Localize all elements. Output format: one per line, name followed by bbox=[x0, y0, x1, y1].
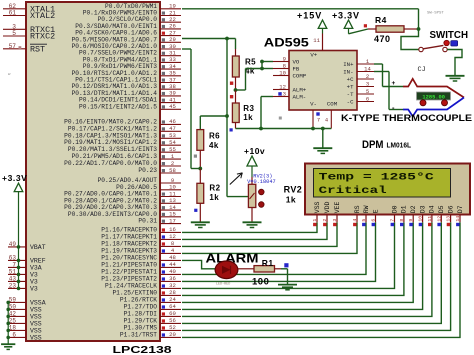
svg-text:+15V: +15V bbox=[297, 11, 322, 21]
svg-text:5: 5 bbox=[361, 219, 367, 222]
pin P0.28/AD0.1/CAP0.2/MAT0.2 (pin 13) right stub bbox=[64, 197, 181, 204]
node R6/R2 junction bbox=[198, 167, 202, 171]
label RV2(3) voltage bbox=[247, 173, 276, 185]
AD595 pin COMP (10) bbox=[273, 69, 307, 79]
wire LCD pin x=327 to MCU row y=239.4 bbox=[182, 222, 327, 239]
svg-text:63: 63 bbox=[9, 254, 17, 261]
wire LCD pin x=422.6 to MCU row y=309.4 bbox=[182, 222, 423, 309]
pin P0.13/DTR1/MAT1.1/AD1.4 (pin 39) right stub bbox=[72, 90, 181, 97]
svg-text:45: 45 bbox=[169, 103, 176, 110]
AD595 pins V-/COM (7,4) to ground bbox=[313, 110, 331, 129]
svg-text:R1: R1 bbox=[262, 258, 274, 268]
wire LCD pin x=394.5 to MCU row y=288.4 bbox=[182, 222, 395, 288]
svg-text:P1.19/TRACEPKT3: P1.19/TRACEPKT3 bbox=[101, 247, 157, 254]
wire LCD pin x=337 to MCU row y=246.4 bbox=[182, 222, 337, 246]
AD595 pin -T (5) bbox=[347, 88, 374, 98]
svg-text:P1.20/TRACESYNC: P1.20/TRACESYNC bbox=[101, 254, 157, 261]
wire LCD pin x=403.9 to MCU row y=295.4 bbox=[182, 222, 404, 295]
LCD pin D2 (9) bbox=[408, 205, 417, 226]
svg-text:D0: D0 bbox=[391, 205, 398, 213]
wire FB to R5/R3 junction bbox=[236, 69, 263, 91]
wire LCD pin x=366 to MCU row y=274.4 bbox=[182, 222, 366, 274]
pin VSS (pin 25) left stub bbox=[8, 317, 42, 327]
pin P0.17/CAP1.2/SCK1/MAT1.2 (pin 47) right stub bbox=[68, 125, 181, 132]
svg-text:7: 7 bbox=[12, 261, 16, 268]
svg-text:54: 54 bbox=[169, 139, 176, 146]
svg-text:60: 60 bbox=[169, 310, 176, 317]
svg-text:+3.3V: +3.3V bbox=[2, 173, 27, 183]
svg-text:4k: 4k bbox=[209, 141, 219, 150]
svg-text:P0.22/AD1.7/CAP0.0/MAT0.0: P0.22/AD1.7/CAP0.0/MAT0.0 bbox=[64, 160, 157, 167]
pin P0.14/DCD1/EINT1/SDA1 (pin 41) right stub bbox=[79, 96, 181, 103]
pin P0.16/EINT0/MAT0.2/CAP0.2 (pin 46) right stub bbox=[64, 118, 181, 125]
pin P1.31/TRST (pin 20) right stub bbox=[120, 331, 181, 338]
wire LCD pin x=357 to MCU row y=253.4 bbox=[182, 222, 357, 253]
pin P0.21/PWM5/AD1.6/CAP1.3 (pin 1) right stub bbox=[72, 153, 181, 160]
svg-text:CJ: CJ bbox=[418, 66, 426, 74]
pin P0.12/DSR1/MAT1.0/AD1.3 (pin 38) right stub bbox=[72, 83, 181, 90]
blue square near R1 ground bbox=[284, 263, 288, 267]
svg-text:AD595: AD595 bbox=[264, 38, 310, 50]
AD595 pin V+ (11) bbox=[313, 34, 322, 51]
svg-text:ALM-: ALM- bbox=[293, 94, 307, 101]
op-amp U2 AD595 body bbox=[289, 51, 357, 111]
svg-text:20: 20 bbox=[169, 331, 176, 338]
node R5/R3 junction bbox=[234, 88, 238, 92]
svg-text:40: 40 bbox=[169, 268, 176, 275]
ground under R1 bbox=[278, 285, 297, 290]
pin P0.20/MAT1.3/SSEL1/EINT3 (pin 55) right stub bbox=[68, 146, 181, 153]
svg-text:13: 13 bbox=[446, 216, 452, 222]
svg-text:+: + bbox=[392, 80, 396, 87]
svg-text:V3: V3 bbox=[30, 272, 38, 279]
svg-text:XTAL2: XTAL2 bbox=[30, 11, 55, 21]
pin P1.28/TDI (pin 60) right stub bbox=[124, 310, 181, 317]
LCD pin D0 (7) bbox=[390, 205, 399, 226]
pin P0.22/AD1.7/CAP0.0/MAT0.0 (pin 2) right stub bbox=[64, 160, 181, 167]
AD595 pin ALM- (13) bbox=[273, 90, 306, 100]
svg-text:D5: D5 bbox=[438, 205, 445, 213]
svg-text:LPC2138: LPC2138 bbox=[113, 345, 173, 355]
pin VSSA (pin 59) left stub bbox=[8, 296, 46, 306]
svg-text:8: 8 bbox=[283, 62, 286, 69]
pin V3 (pin 51) left stub bbox=[8, 268, 38, 278]
svg-text:SW-SPST: SW-SPST bbox=[427, 11, 444, 15]
LCD LM016L body bbox=[305, 164, 470, 215]
svg-text:IN+: IN+ bbox=[343, 61, 354, 68]
pin RTXC1 (pin 3) left stub bbox=[3, 23, 55, 35]
svg-text:V-: V- bbox=[310, 101, 317, 108]
pin P0.4/SCK0/CAP0.1/AD0.6 (pin 27) right stub bbox=[75, 29, 181, 36]
pin VBAT (pin 49) left stub bbox=[8, 241, 46, 251]
svg-text:P1.24/TRACECLK: P1.24/TRACECLK bbox=[105, 282, 157, 289]
svg-text:3: 3 bbox=[332, 219, 338, 222]
node VO-FB junctions bbox=[260, 60, 264, 71]
svg-text:P1.16/TRACEPKT0: P1.16/TRACEPKT0 bbox=[101, 226, 157, 233]
label AD595 bbox=[264, 38, 310, 50]
svg-text:8: 8 bbox=[171, 240, 174, 247]
pin P1.26/RTCK (pin 24) right stub bbox=[120, 296, 181, 303]
svg-text:RS: RS bbox=[354, 205, 361, 213]
thermocouple adjust buttons bbox=[420, 100, 448, 106]
potentiometer RV2 1k bbox=[230, 173, 264, 222]
AD595 pin -C (6) bbox=[347, 95, 374, 105]
svg-text:D1: D1 bbox=[401, 205, 408, 213]
pin P0.0/TxD0/PWM1 (pin 19) right stub bbox=[105, 3, 181, 10]
svg-text:R5: R5 bbox=[245, 58, 256, 67]
svg-text:49: 49 bbox=[9, 241, 17, 248]
ground under R2 bbox=[191, 222, 210, 227]
svg-text:1285.00: 1285.00 bbox=[422, 94, 445, 100]
svg-text:7: 7 bbox=[317, 118, 320, 124]
svg-text:58: 58 bbox=[169, 167, 176, 174]
pin P0.3/SDA0/MAT0.0/EINT1 (pin 26) right stub bbox=[75, 23, 181, 30]
svg-text:P1.31/TRST: P1.31/TRST bbox=[120, 331, 157, 338]
svg-text:VEE: VEE bbox=[334, 201, 341, 213]
svg-text:IN-: IN- bbox=[343, 69, 353, 76]
AD595 pin VO (9) bbox=[273, 55, 300, 65]
svg-text:2: 2 bbox=[366, 73, 369, 80]
svg-text:R3: R3 bbox=[243, 104, 254, 113]
pin P1.22/PIPESTAT1 (pin 40) right stub bbox=[101, 268, 181, 275]
svg-text:9: 9 bbox=[408, 219, 414, 222]
pin P1.24/TRACECLK (pin 32) right stub bbox=[105, 282, 181, 289]
svg-text:6: 6 bbox=[366, 95, 369, 102]
pin P1.18/TRACEPKT2 (pin 8) right stub bbox=[101, 240, 181, 247]
svg-text:6: 6 bbox=[371, 219, 377, 222]
LCD pin RS (4) bbox=[352, 205, 361, 226]
svg-text:10: 10 bbox=[418, 216, 424, 222]
label K-TYPE THERMOCOUPLE bbox=[341, 113, 472, 124]
pin P0.31 (pin 17) right stub bbox=[138, 217, 181, 224]
LCD pin D6 (13) bbox=[446, 205, 455, 226]
tiny gray mark bbox=[8, 73, 11, 77]
pin P0.6/MOSI0/CAP0.2/AD1.0 (pin 30) right stub bbox=[72, 43, 181, 50]
pin P0.5/MISO0/MAT0.1/AD0.7 (pin 29) right stub bbox=[72, 36, 181, 43]
svg-text:4: 4 bbox=[325, 118, 328, 124]
pin V3A (pin 7) left stub bbox=[8, 261, 42, 271]
svg-text:2: 2 bbox=[171, 160, 174, 167]
node ground bus junctions bbox=[259, 127, 325, 131]
svg-text:R2: R2 bbox=[209, 184, 220, 193]
svg-text:11: 11 bbox=[427, 216, 433, 222]
wire VO to FB bbox=[262, 62, 273, 69]
svg-text:1k: 1k bbox=[209, 193, 219, 202]
svg-text:LM016L: LM016L bbox=[387, 140, 412, 149]
svg-text:P1.29/TCK: P1.29/TCK bbox=[124, 317, 158, 324]
svg-text:P0.15/RI1/EINT2/AD1.5: P0.15/RI1/EINT2/AD1.5 bbox=[79, 103, 157, 110]
svg-text:47: 47 bbox=[169, 125, 176, 132]
svg-text:SWITCH: SWITCH bbox=[430, 29, 469, 41]
svg-text:D7: D7 bbox=[457, 205, 464, 213]
svg-text:12: 12 bbox=[279, 83, 286, 90]
svg-text:VSS: VSS bbox=[30, 307, 42, 314]
svg-text:VSS: VSS bbox=[30, 335, 42, 342]
thermocouple TC1 K-type chromel lead (red) bbox=[403, 79, 464, 98]
pin P0.26/AD0.5 (pin 10) right stub bbox=[116, 184, 181, 191]
resistor R4 470 bbox=[368, 15, 419, 44]
svg-text:D2: D2 bbox=[410, 205, 417, 213]
pin P1.17/TRACEPKT1 (pin 12) right stub bbox=[101, 233, 181, 240]
svg-text:44: 44 bbox=[169, 261, 176, 268]
pin P0.10/RTS1/CAP1.0/AD1.2 (pin 35) right stub bbox=[72, 70, 181, 77]
svg-text:16: 16 bbox=[169, 226, 176, 233]
LCD pin VSS (1) bbox=[312, 201, 321, 226]
LCD pin VDD (2) bbox=[322, 201, 331, 226]
svg-text:P1.23/PIPESTAT2: P1.23/PIPESTAT2 bbox=[101, 275, 157, 282]
ground under AD595 bbox=[313, 148, 332, 153]
wire P0.6 pin30 to R6/R2 junction bbox=[182, 49, 200, 169]
svg-text:56: 56 bbox=[169, 317, 176, 324]
svg-text:-C: -C bbox=[347, 99, 354, 106]
LCD pin D1 (8) bbox=[399, 205, 408, 226]
wire R1 to ground bbox=[281, 269, 288, 284]
svg-text:P1.21/PIPESTAT0: P1.21/PIPESTAT0 bbox=[101, 261, 157, 268]
svg-text:+10v: +10v bbox=[244, 146, 265, 156]
pin P0.8/TxD1/PWM4/AD1.1 (pin 33) right stub bbox=[83, 56, 181, 63]
pin VSS (pin 42) left stub bbox=[8, 310, 42, 320]
LCD pin D7 (14) bbox=[455, 205, 464, 226]
svg-text:V3A: V3A bbox=[30, 265, 42, 272]
svg-text:ALM+: ALM+ bbox=[293, 87, 307, 94]
blue square below R3 bbox=[230, 128, 233, 131]
pin P1.21/PIPESTAT0 (pin 44) right stub bbox=[101, 261, 181, 268]
svg-text:V=0.18047: V=0.18047 bbox=[247, 179, 276, 185]
svg-text:V3: V3 bbox=[30, 279, 38, 286]
svg-text:COM: COM bbox=[327, 101, 338, 108]
microcontroller U1 LPC2138 body bbox=[26, 2, 160, 341]
wire LCD pin x=450.6 to MCU row y=330.4 bbox=[182, 222, 451, 330]
svg-text:P1.28/TDI: P1.28/TDI bbox=[124, 310, 158, 317]
AD595 pin IN- (14) bbox=[343, 65, 374, 75]
wire ALM- to ground bus bbox=[261, 97, 273, 129]
svg-text:K-TYPE THERMOCOUPLE: K-TYPE THERMOCOUPLE bbox=[341, 113, 472, 124]
wire R6 top to rail B bbox=[200, 116, 227, 130]
svg-text:+C: +C bbox=[347, 76, 354, 83]
svg-text:14: 14 bbox=[455, 216, 461, 222]
svg-text:P0.19/MAT1.2/MOSI1/CAP1.2: P0.19/MAT1.2/MOSI1/CAP1.2 bbox=[64, 139, 157, 146]
svg-text:43: 43 bbox=[9, 275, 17, 282]
pin XTAL2 (pin 61) left stub bbox=[3, 10, 55, 22]
power +15V bbox=[297, 11, 327, 34]
pin RST (pin 57) left stub bbox=[3, 43, 47, 55]
wire switch to ground bbox=[447, 50, 462, 76]
pin P1.29/TCK (pin 56) right stub bbox=[124, 317, 181, 324]
svg-text:1k: 1k bbox=[286, 194, 296, 204]
svg-text:RV2: RV2 bbox=[284, 185, 303, 195]
svg-text:5: 5 bbox=[366, 88, 369, 95]
thermocouple temperature display 1285.00 bbox=[417, 92, 451, 100]
wire LCD pin x=413.2 to MCU row y=302.4 bbox=[182, 222, 413, 302]
svg-text:RTXC2: RTXC2 bbox=[30, 32, 55, 42]
wire P0.0 pin19 to switch net bbox=[182, 9, 419, 29]
pin XTAL1 (pin 62) left stub bbox=[3, 3, 55, 15]
pin V3 (pin 23) left stub bbox=[8, 282, 38, 292]
svg-text:D4: D4 bbox=[429, 205, 436, 213]
svg-text:VO: VO bbox=[293, 59, 300, 66]
wire ground bus under AD595 bbox=[236, 129, 332, 148]
node rail B junction bbox=[225, 37, 229, 41]
svg-text:51: 51 bbox=[9, 268, 17, 275]
pin RTXC2 (pin 5) left stub bbox=[3, 30, 55, 42]
node R6 top junction bbox=[225, 114, 229, 118]
label LPC2138 bbox=[113, 345, 173, 355]
svg-text:6: 6 bbox=[12, 331, 16, 338]
pin V3 (pin 43) left stub bbox=[8, 275, 38, 285]
svg-text:VBAT: VBAT bbox=[30, 244, 46, 251]
svg-text:P1.22/PIPESTAT1: P1.22/PIPESTAT1 bbox=[101, 268, 157, 275]
svg-text:10: 10 bbox=[279, 69, 286, 76]
AD595 pin IN+ (1) bbox=[343, 58, 374, 68]
LCD pin D4 (11) bbox=[427, 205, 436, 226]
LCD pin D3 (10) bbox=[418, 205, 427, 226]
svg-text:Critical: Critical bbox=[319, 185, 387, 196]
svg-text:V3: V3 bbox=[30, 286, 38, 293]
svg-text:8: 8 bbox=[399, 219, 405, 222]
node thermocouple polarity labels bbox=[392, 80, 396, 112]
svg-text:P0.23: P0.23 bbox=[138, 167, 157, 174]
red indicator squares near R5/R3 bbox=[230, 82, 233, 99]
pin P0.9/RxD1/PWM6/EINT3 (pin 34) right stub bbox=[83, 63, 181, 70]
label RV2 1k bbox=[284, 185, 303, 205]
svg-text:D6: D6 bbox=[447, 205, 454, 213]
svg-text:P0.31: P0.31 bbox=[138, 218, 157, 225]
thermocouple TC1 alumel lead (blue) bbox=[403, 98, 464, 117]
LCD pin D5 (12) bbox=[436, 205, 445, 226]
svg-text:COMP: COMP bbox=[293, 73, 307, 80]
svg-text:52: 52 bbox=[169, 324, 176, 331]
svg-text:36: 36 bbox=[169, 275, 176, 282]
pin P1.23/PIPESTAT2 (pin 36) right stub bbox=[101, 275, 181, 282]
svg-text:12: 12 bbox=[169, 233, 176, 240]
svg-text:+T: +T bbox=[347, 84, 354, 91]
svg-text:28: 28 bbox=[169, 289, 176, 296]
pin P0.15/RI1/EINT2/AD1.5 (pin 45) right stub bbox=[79, 103, 181, 110]
resistor R6 4k bbox=[194, 130, 220, 169]
svg-text:R4: R4 bbox=[375, 15, 387, 25]
svg-text:57: 57 bbox=[9, 43, 17, 50]
wire LCD pin x=375.5 to MCU row y=281.4 bbox=[182, 222, 376, 281]
svg-text:P1.17/TRACEPKT1: P1.17/TRACEPKT1 bbox=[101, 233, 157, 240]
svg-text:VSSA: VSSA bbox=[30, 300, 46, 307]
ground near switch bbox=[446, 76, 465, 81]
pin P0.29/AD0.2/CAP0.3/MAT0.3 (pin 14) right stub bbox=[64, 204, 181, 211]
LCD pin RW (5) bbox=[361, 205, 370, 226]
svg-text:LED-RED: LED-RED bbox=[216, 282, 230, 286]
svg-text:24: 24 bbox=[169, 296, 176, 303]
LED D1 LED-RED bbox=[215, 261, 238, 286]
wire P1.20 pin48 to LED bbox=[182, 260, 215, 268]
wire rail B down to RV2 wiper bbox=[227, 39, 248, 197]
svg-text:23: 23 bbox=[9, 282, 17, 289]
svg-text:470: 470 bbox=[374, 34, 391, 44]
wire +3.3V to R4 bbox=[349, 29, 369, 34]
svg-text:P1.25/EXTIN0: P1.25/EXTIN0 bbox=[112, 289, 157, 296]
svg-text:P0.17/CAP1.2/SCK1/MAT1.2: P0.17/CAP1.2/SCK1/MAT1.2 bbox=[68, 125, 157, 132]
wire LCD pin x=460 to MCU row y=337.4 bbox=[182, 222, 460, 337]
pin P1.19/TRACEPKT3 (pin 4) right stub bbox=[101, 247, 181, 254]
label DPM LM016L bbox=[362, 139, 412, 151]
svg-text:E: E bbox=[372, 209, 379, 213]
AD595 pin FB (8) bbox=[273, 62, 300, 72]
svg-text:RW: RW bbox=[363, 205, 370, 213]
svg-text:VSS: VSS bbox=[30, 314, 42, 321]
LCD screen bbox=[314, 169, 451, 198]
AD595 pin ALM+ (12) bbox=[273, 83, 307, 93]
svg-text:+3.3V: +3.3V bbox=[332, 11, 360, 21]
LCD pin E (6) bbox=[371, 209, 380, 226]
pin P0.19/MAT1.2/MOSI1/CAP1.2 (pin 54) right stub bbox=[64, 139, 181, 146]
svg-text:-T: -T bbox=[347, 91, 354, 98]
AD595 pin +T (3) bbox=[347, 80, 374, 90]
pin P0.11/CTS1/CAP1.1/SCL1 (pin 37) right stub bbox=[75, 76, 181, 83]
svg-text:P1.26/RTCK: P1.26/RTCK bbox=[120, 296, 157, 303]
pin VSS (pin 6) left stub bbox=[8, 331, 42, 341]
ground (left VSS rail) bbox=[1, 301, 15, 350]
svg-text:VSS: VSS bbox=[30, 321, 42, 328]
label CJ bbox=[418, 66, 426, 74]
node R4/switch junction bbox=[417, 27, 421, 31]
svg-text:P1.18/TRACEPKT2: P1.18/TRACEPKT2 bbox=[101, 240, 157, 247]
AD595 pin +C (2) bbox=[347, 73, 374, 83]
svg-text:VSS: VSS bbox=[314, 201, 321, 213]
svg-text:7: 7 bbox=[390, 219, 396, 222]
pin VSS (pin 50) left stub bbox=[8, 303, 42, 313]
svg-text:48: 48 bbox=[169, 254, 176, 261]
pin P0.7/SSEL0/PWM2/EINT2 (pin 31) right stub bbox=[79, 50, 181, 57]
pin P0.2/SCL0/CAP0.0 (pin 22) right stub bbox=[98, 16, 181, 23]
svg-text:DPM: DPM bbox=[362, 139, 384, 151]
wire P0.4 pin27 to R5 top bbox=[182, 39, 236, 50]
red square at R4 left bbox=[364, 24, 367, 27]
pin P0.1/RxD0/PWM3/EINT0 (pin 21) right stub bbox=[83, 9, 181, 16]
ground under RV2 bbox=[243, 222, 262, 227]
LCD pin VEE (3) bbox=[332, 201, 341, 226]
svg-text:61: 61 bbox=[9, 10, 17, 17]
resistor R2 1k bbox=[194, 169, 220, 223]
pin P1.25/EXTIN0 (pin 28) right stub bbox=[112, 289, 181, 296]
resistor R1 100 bbox=[238, 258, 281, 288]
svg-text:14: 14 bbox=[364, 65, 371, 72]
svg-text:Temp = 1285°C: Temp = 1285°C bbox=[319, 171, 434, 182]
wire LCD pin x=317 to MCU row y=232.4 bbox=[182, 222, 317, 232]
tiny gray mark under ALM- bbox=[279, 117, 282, 120]
pin P1.16/TRACEPKT0 (pin 16) right stub bbox=[101, 226, 181, 233]
wire LCD pin x=441.3 to MCU row y=323.4 bbox=[182, 222, 441, 323]
svg-text:FB: FB bbox=[293, 66, 300, 73]
label ALARM bbox=[206, 251, 259, 265]
pin P0.27/AD0.0/CAP0.1/MAT0.1 (pin 11) right stub bbox=[64, 190, 181, 197]
resistor R3 1k bbox=[232, 90, 254, 129]
svg-text:17: 17 bbox=[169, 217, 176, 224]
pin P0.18/CAP1.3/MISO1/MAT1.3 (pin 53) right stub bbox=[64, 132, 181, 139]
pin P0.25/AD0.4/AOUT (pin 9) right stub bbox=[98, 177, 181, 184]
svg-text:9: 9 bbox=[283, 55, 286, 62]
wire AD595 IN+ to thermocouple + bbox=[374, 64, 403, 87]
svg-text:64: 64 bbox=[169, 303, 176, 310]
svg-text:1k: 1k bbox=[243, 113, 253, 122]
pin P0.23 (pin 58) right stub bbox=[138, 167, 181, 174]
svg-text:1: 1 bbox=[312, 219, 318, 222]
svg-text:12: 12 bbox=[436, 216, 442, 222]
label SWITCH bbox=[430, 29, 469, 41]
pin P1.30/TMS (pin 52) right stub bbox=[124, 324, 181, 331]
svg-text:P1.30/TMS: P1.30/TMS bbox=[124, 324, 158, 331]
svg-text:VREF: VREF bbox=[30, 258, 46, 265]
pin P1.20/TRACESYNC (pin 48) right stub bbox=[101, 254, 181, 261]
svg-text:2: 2 bbox=[322, 219, 328, 222]
resistor R5 4k bbox=[232, 49, 256, 90]
